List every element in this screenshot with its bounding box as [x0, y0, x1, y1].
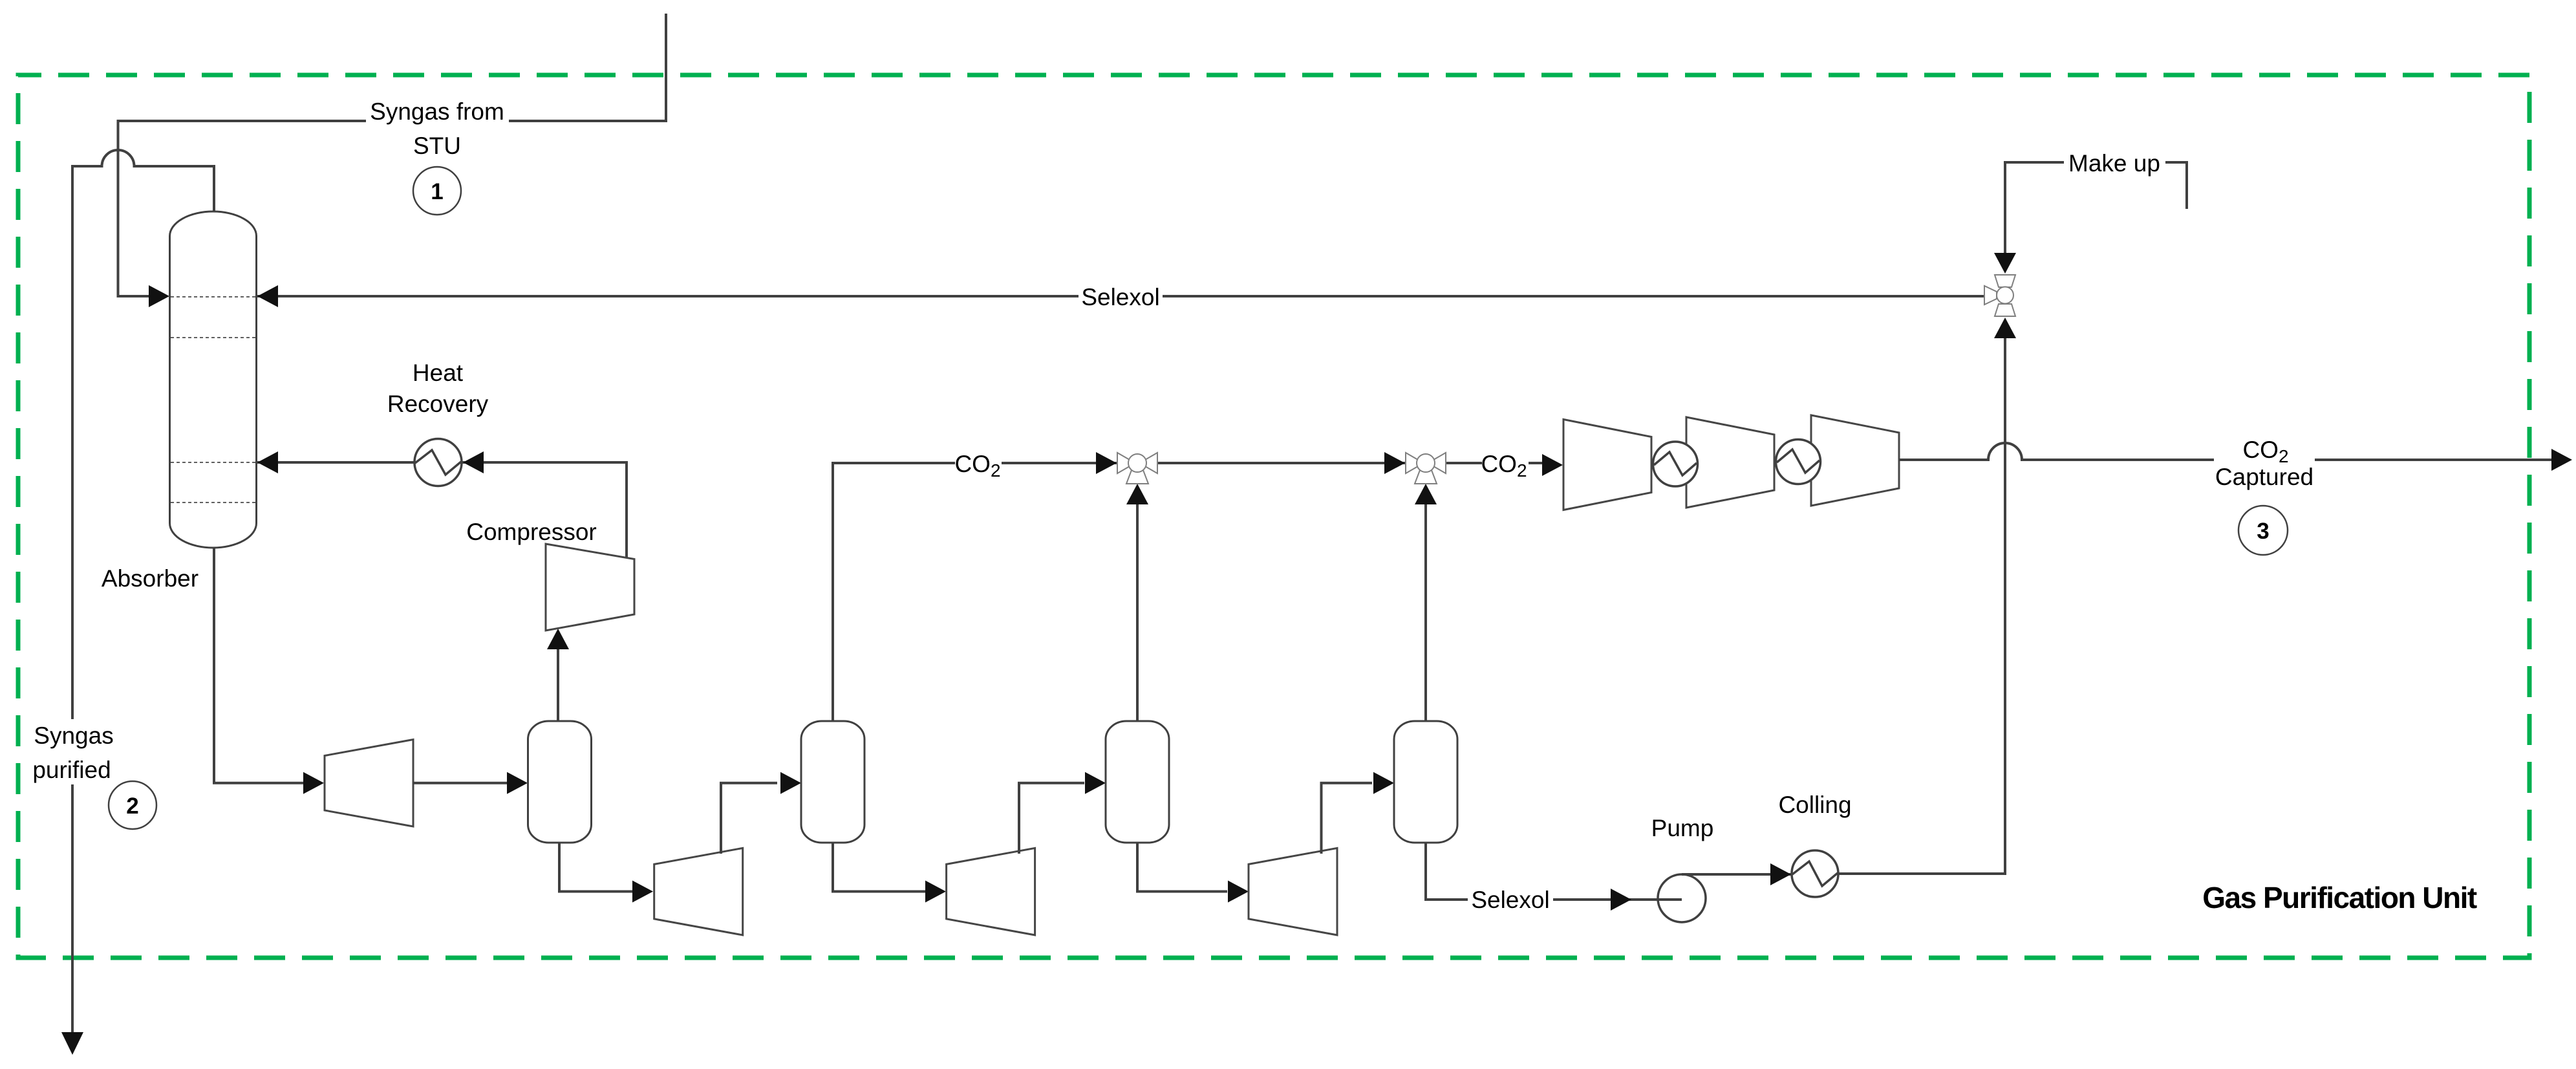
product compressor T3: [1811, 415, 1899, 506]
wire V3 bottom to compressor B4: [1137, 843, 1227, 892]
svg-text:Absorber: Absorber: [102, 565, 199, 592]
cooler Colling: [1792, 850, 1838, 897]
svg-text:STU: STU: [413, 133, 461, 159]
tray dashed line 3: [171, 462, 255, 463]
arrow up into valve MV: [1994, 318, 2016, 338]
wire B3 to drum V3: [1019, 783, 1084, 854]
svg-text:Recovery: Recovery: [387, 391, 489, 417]
arrow into valve FV2: [1384, 452, 1405, 474]
wire cooler to selexol riser up to valve MV: [1838, 336, 2005, 874]
label Selexol (pump suction): [1468, 885, 1553, 913]
wire selexol return header (valve to absorber): [257, 295, 1984, 297]
arrow into heat exchanger: [463, 451, 484, 473]
compressor B3: [947, 848, 1035, 935]
knock-out drum V4: [1394, 721, 1457, 843]
arrow into compressor C1: [547, 629, 569, 649]
absorber column: [170, 211, 257, 548]
compressor C1 (Compressor): [546, 544, 634, 631]
wire V2 top riser and CO2 header to flash valves: [833, 463, 1542, 721]
arrow up into valve FV1: [1126, 484, 1148, 504]
arrow CO2 captured outlet: [2551, 449, 2572, 471]
arrow into compressor B3: [925, 881, 946, 903]
arrow into cooler: [1770, 863, 1791, 885]
svg-text:Compressor: Compressor: [466, 519, 597, 545]
compressor B1: [325, 740, 413, 827]
arrow into drum V1: [507, 772, 528, 794]
wire syngas purified from absorber top with hop over feed line: [72, 150, 214, 1032]
wire syngas feed from STU (top): [118, 14, 667, 296]
label CO2 second: [1481, 449, 1529, 481]
wire make-up line: [2005, 162, 2187, 256]
compressor B4: [1249, 848, 1337, 935]
product compressor T2: [1686, 417, 1774, 508]
arrow into valve FV1: [1096, 452, 1117, 474]
knock-out drum V3: [1106, 721, 1169, 843]
svg-text:Syngas: Syngas: [34, 722, 113, 749]
svg-text:Make up: Make up: [2068, 150, 2160, 177]
label Make up: [2064, 148, 2165, 177]
flash valve FV1: [1117, 452, 1158, 484]
arrow down into valve MV: [1994, 253, 2016, 274]
flash valve FV2: [1405, 452, 1446, 484]
label Selexol (header): [1079, 282, 1163, 310]
wire V2 bottom to compressor B3: [833, 843, 925, 892]
arrow into compressor B2: [632, 881, 653, 903]
arrow into drum V2: [780, 772, 801, 794]
label Syngas from STU: [366, 97, 509, 159]
wire B4 to drum V4: [1322, 783, 1373, 854]
arrow selexol into absorber: [257, 285, 278, 307]
arrow CO2 into product compressor T1: [1542, 454, 1563, 476]
wire CO2 captured line with hop over selexol riser: [1899, 443, 2551, 460]
svg-text:Gas Purification Unit: Gas Purification Unit: [2202, 881, 2477, 914]
wire pump discharge to cooler: [1682, 873, 1791, 876]
wire B1 to KO drum V1: [413, 782, 507, 784]
svg-text:Selexol: Selexol: [1081, 284, 1159, 310]
svg-text:Heat: Heat: [413, 360, 464, 386]
label Syngas purified: [31, 719, 120, 784]
node 1: [413, 167, 461, 215]
wire B2 to drum V2: [721, 783, 777, 854]
wire V1 bottom to compressor B2: [559, 843, 632, 892]
knock-out drum V2: [801, 721, 864, 843]
node 3: [2238, 506, 2288, 555]
arrow into drum V3: [1085, 772, 1106, 794]
wire V1 top to compressor C1: [557, 649, 559, 721]
wire V4 top riser to valve FV2: [1424, 504, 1427, 721]
pump: [1657, 874, 1706, 922]
wire V4 bottom selexol line to pump: [1426, 843, 1657, 900]
svg-text:Captured: Captured: [2215, 464, 2313, 490]
arrow into compressor B4: [1228, 881, 1249, 903]
arrow into absorber feed nozzle: [149, 285, 169, 307]
make-up valve MV (3-way): [1984, 274, 2016, 317]
svg-text:1: 1: [431, 179, 443, 204]
svg-text:Colling: Colling: [1778, 792, 1851, 818]
compressor B2: [654, 848, 743, 935]
tray dashed line 2: [171, 337, 255, 338]
product compressor T1: [1563, 420, 1651, 510]
arrow up into valve FV2: [1415, 484, 1437, 504]
knock-out drum V1: [528, 721, 592, 843]
arrow into absorber from heat recovery: [257, 451, 278, 473]
tray dashed line 4: [171, 502, 255, 503]
arrow into pump: [1611, 889, 1631, 911]
svg-text:purified: purified: [32, 757, 111, 783]
svg-text:Selexol: Selexol: [1471, 887, 1549, 913]
arrow into compressor B1: [303, 772, 324, 794]
wire heat recovery return (compressor to absorber): [257, 462, 627, 559]
arrow syngas purified outlet (bottom left): [61, 1032, 83, 1055]
label Heat Recovery: [387, 360, 489, 417]
intercooler HX1: [1653, 442, 1698, 486]
svg-text:Pump: Pump: [1651, 815, 1714, 841]
svg-text:Syngas from: Syngas from: [370, 98, 504, 125]
svg-text:2: 2: [126, 794, 138, 819]
heat exchanger Heat Recovery: [414, 439, 462, 486]
label CO2 first: [954, 449, 1002, 481]
wire absorber bottoms to compressor B1: [214, 548, 304, 783]
label CO2 Captured: [2214, 437, 2315, 490]
svg-text:3: 3: [2257, 519, 2269, 544]
intercooler HX2: [1776, 440, 1821, 484]
node 2: [109, 781, 156, 829]
wire V3 top riser to valve FV1: [1136, 504, 1139, 721]
arrow into drum V4: [1373, 772, 1394, 794]
tray dashed line 1: [171, 296, 255, 297]
